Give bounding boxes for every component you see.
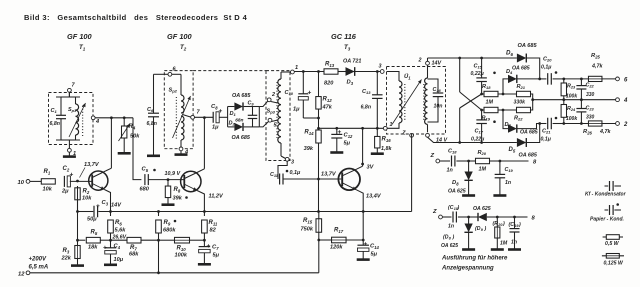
label 14V rail bbox=[111, 203, 122, 209]
wire Z terminal down bbox=[411, 137, 413, 211]
svg-text:GF 100: GF 100 bbox=[167, 32, 193, 41]
capacitor C4 bbox=[103, 240, 124, 265]
svg-text:82: 82 bbox=[210, 228, 217, 234]
transistor T1 bbox=[89, 168, 112, 190]
svg-text:C7: C7 bbox=[212, 245, 219, 251]
svg-text:0,1μ: 0,1μ bbox=[541, 65, 552, 71]
resistor R2 bbox=[75, 188, 92, 202]
svg-text:330k: 330k bbox=[514, 100, 527, 106]
svg-text:6,8n: 6,8n bbox=[50, 121, 60, 127]
label D3 bbox=[343, 59, 361, 86]
svg-text:D4: D4 bbox=[506, 69, 513, 75]
svg-text:13,7V: 13,7V bbox=[321, 172, 337, 178]
capacitor C16 bbox=[428, 79, 444, 122]
stage label GF100 T1 bbox=[67, 32, 93, 51]
svg-text:Papier - Kond.: Papier - Kond. bbox=[590, 217, 624, 223]
svg-text:68n: 68n bbox=[235, 118, 243, 124]
svg-text:R7: R7 bbox=[130, 245, 137, 251]
svg-text:C20: C20 bbox=[543, 57, 552, 63]
label 10,9V bbox=[165, 171, 181, 177]
svg-text:GC 116: GC 116 bbox=[331, 32, 357, 41]
wire bottom rail 14V bbox=[428, 137, 517, 144]
svg-text:C13: C13 bbox=[362, 89, 371, 95]
terminal 1 Sp3 bbox=[291, 65, 299, 74]
svg-text:10,9 V: 10,9 V bbox=[165, 171, 181, 177]
tank1 internal rails bbox=[56, 97, 80, 140]
dashed enclosure Sp3 bbox=[266, 71, 290, 161]
wire T1 emitter down bbox=[105, 190, 111, 212]
svg-text:GF 100: GF 100 bbox=[67, 32, 93, 41]
wire T3 collector up + label 3V bbox=[361, 127, 374, 171]
output terminal 4 bbox=[616, 98, 628, 104]
wire output 8 bbox=[500, 159, 537, 165]
svg-text:1n: 1n bbox=[505, 180, 511, 186]
svg-text:820: 820 bbox=[324, 81, 334, 87]
wire R21-R22 join bbox=[531, 94, 535, 110]
svg-text:R1: R1 bbox=[44, 169, 51, 175]
diode D8 alternative bbox=[462, 216, 475, 250]
wire base row to rail bbox=[318, 179, 320, 212]
resistor R16 bbox=[371, 128, 384, 153]
svg-text:OA 685: OA 685 bbox=[232, 135, 251, 141]
terminal 6 Sp2 bbox=[168, 67, 177, 77]
wire top rail from Sp3 terminal1 bbox=[294, 70, 382, 73]
svg-text:1n: 1n bbox=[448, 224, 454, 230]
svg-text:R11: R11 bbox=[209, 220, 218, 226]
capacitor C21 bbox=[540, 117, 562, 143]
svg-text:4,7k: 4,7k bbox=[591, 64, 603, 70]
svg-text:50μ: 50μ bbox=[87, 217, 97, 223]
svg-text:R17: R17 bbox=[334, 228, 344, 234]
label R5 bbox=[88, 230, 98, 251]
svg-text:D3: D3 bbox=[347, 80, 354, 86]
svg-text:Anzeigespannung: Anzeigespannung bbox=[441, 266, 494, 272]
svg-text:Sp3: Sp3 bbox=[267, 109, 276, 115]
svg-text:R22: R22 bbox=[514, 116, 523, 122]
svg-text:R16: R16 bbox=[382, 137, 392, 143]
wire T3 emitter down + label 13,4V bbox=[356, 190, 381, 240]
resistor R19 row bbox=[482, 107, 517, 112]
resistor R12 bbox=[316, 72, 333, 131]
transistor T2 bbox=[181, 169, 205, 192]
capacitor C2 bbox=[61, 166, 74, 195]
svg-text:T1: T1 bbox=[79, 44, 86, 51]
svg-text:D5: D5 bbox=[509, 147, 516, 153]
output terminal 6 bbox=[616, 77, 628, 83]
dashed enclosure filter Sp1 bbox=[49, 93, 94, 145]
svg-text:0,22μ: 0,22μ bbox=[471, 137, 485, 143]
svg-text:R19: R19 bbox=[482, 116, 491, 122]
svg-text:10μ: 10μ bbox=[114, 257, 124, 263]
resistor R11 bbox=[202, 212, 208, 241]
svg-text:26,6V: 26,6V bbox=[112, 235, 127, 241]
label D1 bbox=[230, 93, 252, 117]
core Sp3 bbox=[276, 82, 278, 140]
core U1 bbox=[405, 84, 424, 120]
capacitor C18 alternative bbox=[442, 205, 468, 230]
capacitor C6 bbox=[147, 74, 161, 156]
svg-text:+: + bbox=[364, 241, 368, 248]
wire C6 to terminal 6 bbox=[154, 73, 169, 75]
svg-text:R4: R4 bbox=[129, 124, 136, 130]
legend 0,5W resistor symbol bbox=[603, 235, 623, 240]
terminal U1 bottom right 14V bbox=[426, 133, 448, 143]
wire T2 collector up bbox=[203, 118, 205, 169]
svg-text:Kf - Kondensator: Kf - Kondensator bbox=[585, 192, 627, 198]
terminal 5 Sp3 bbox=[268, 118, 277, 128]
svg-text:R24: R24 bbox=[567, 106, 576, 112]
label R20 alternative bbox=[493, 221, 508, 247]
label D7 bbox=[505, 122, 538, 136]
svg-text:3V: 3V bbox=[367, 165, 375, 171]
svg-text:C6: C6 bbox=[147, 107, 154, 113]
svg-text:10: 10 bbox=[18, 180, 25, 186]
T3 base row wire bbox=[283, 178, 341, 181]
svg-text:8: 8 bbox=[533, 159, 537, 165]
diode D2 row bbox=[228, 123, 260, 131]
terminal 1 and ground tank1 bbox=[63, 145, 76, 158]
svg-text:3: 3 bbox=[291, 160, 294, 166]
svg-text:C8: C8 bbox=[211, 104, 218, 110]
diode D1 row bbox=[228, 102, 260, 110]
bridge output rail bbox=[258, 107, 260, 127]
coil U1 secondary bbox=[425, 61, 428, 132]
wire row A bbox=[562, 78, 616, 81]
terminal Z U1 bbox=[401, 131, 413, 138]
label 13,7V collector voltage T1 bbox=[80, 162, 100, 178]
diode D5 and corner bbox=[517, 124, 540, 147]
svg-text:1: 1 bbox=[295, 65, 298, 71]
svg-text:1: 1 bbox=[390, 122, 393, 128]
terminal 4 Sp2 and ground bbox=[175, 145, 190, 156]
resistor R14 bbox=[304, 130, 322, 180]
svg-text:C23: C23 bbox=[586, 106, 595, 112]
svg-text:C3: C3 bbox=[102, 200, 109, 206]
svg-text:D1: D1 bbox=[230, 111, 237, 117]
svg-text:+: + bbox=[96, 203, 100, 210]
svg-text:4: 4 bbox=[95, 119, 100, 125]
wires bridge to Sp3 bbox=[259, 101, 268, 127]
resistor R7 row bbox=[111, 237, 160, 243]
svg-text:13,7V: 13,7V bbox=[84, 162, 100, 168]
capacitor C1 bbox=[50, 97, 67, 140]
potentiometer R4 bbox=[118, 118, 141, 154]
label R10 bbox=[175, 246, 188, 259]
svg-text:1M: 1M bbox=[479, 167, 487, 173]
svg-text:): ) bbox=[452, 235, 455, 241]
svg-text:+200V: +200V bbox=[29, 257, 48, 263]
wire C5 to T2 base bbox=[148, 178, 184, 181]
svg-text:OA 721: OA 721 bbox=[343, 59, 361, 65]
label R20 bbox=[478, 150, 487, 173]
svg-text:R5: R5 bbox=[91, 230, 98, 236]
resistor R13 bbox=[324, 62, 338, 87]
diode D4 bbox=[503, 75, 540, 94]
svg-text:1,8k: 1,8k bbox=[381, 146, 392, 152]
wire bbox=[68, 93, 70, 98]
svg-text:120k: 120k bbox=[330, 245, 343, 251]
svg-text:68k: 68k bbox=[129, 252, 139, 258]
svg-text:Z: Z bbox=[432, 209, 437, 215]
wire C2 to T1 base / node bbox=[70, 180, 92, 183]
svg-text:330: 330 bbox=[586, 115, 595, 121]
label R16 bbox=[381, 137, 392, 153]
capacitor C3 bbox=[76, 200, 109, 223]
svg-text:2: 2 bbox=[623, 122, 628, 128]
resistor R18 row bbox=[482, 91, 517, 96]
svg-text:R23: R23 bbox=[567, 84, 576, 90]
svg-text:R12: R12 bbox=[323, 97, 333, 103]
svg-text:5μ: 5μ bbox=[371, 252, 378, 258]
resistor R26 bbox=[583, 121, 611, 135]
capacitor C10 bbox=[284, 72, 311, 119]
stage label GF100 T2 bbox=[167, 32, 193, 51]
resistor R20 bbox=[469, 158, 502, 163]
svg-text:OA 625: OA 625 bbox=[441, 243, 458, 249]
stage label GC116 T3 bbox=[331, 32, 357, 51]
svg-text:6: 6 bbox=[173, 67, 177, 73]
label R6 bbox=[115, 220, 127, 234]
resistor R17 row bbox=[319, 237, 365, 243]
svg-text:OA 685: OA 685 bbox=[232, 93, 251, 99]
legend Papier capacitor symbol bbox=[605, 203, 622, 215]
capacitor C5 bbox=[140, 167, 156, 193]
label 13,7V T3 bbox=[321, 172, 337, 178]
resistor R5 row bbox=[78, 237, 111, 243]
resistor R6 bbox=[108, 212, 114, 242]
coil U1 primary bbox=[387, 72, 403, 129]
svg-text:C16: C16 bbox=[433, 87, 442, 93]
svg-text:1M: 1M bbox=[500, 241, 508, 247]
svg-text:4,7k: 4,7k bbox=[599, 129, 611, 135]
resistor R8 bbox=[162, 180, 188, 205]
legend text Kf-Kondensator bbox=[585, 192, 627, 198]
capacitor C9 bbox=[235, 101, 257, 127]
crossover wires bbox=[460, 92, 483, 111]
svg-text:OA 685: OA 685 bbox=[512, 66, 530, 72]
wire terminal3 down to C11 bbox=[278, 161, 287, 179]
svg-text:T2: T2 bbox=[180, 44, 187, 51]
wire terminal7 to C8 bbox=[195, 116, 214, 119]
svg-text:5μ: 5μ bbox=[344, 141, 351, 147]
bus corner up to R15 bbox=[318, 239, 320, 273]
label D4 bbox=[506, 66, 530, 76]
svg-text:+: + bbox=[70, 172, 74, 179]
svg-text:6,5 mA: 6,5 mA bbox=[29, 265, 49, 271]
svg-text:C19: C19 bbox=[505, 167, 514, 173]
svg-text:330: 330 bbox=[586, 92, 595, 98]
wire R2 to emitter rail bbox=[77, 186, 79, 212]
wire output 8 alternative bbox=[515, 215, 536, 221]
label R7 bbox=[129, 245, 139, 258]
svg-text:2μ: 2μ bbox=[61, 189, 69, 195]
svg-text:T3: T3 bbox=[344, 44, 351, 51]
svg-text:R26: R26 bbox=[583, 129, 592, 135]
svg-text:10k: 10k bbox=[43, 187, 53, 193]
resistor R24 bbox=[561, 100, 577, 124]
legend text 0,5W bbox=[605, 241, 620, 247]
capacitor C14 bbox=[357, 240, 380, 260]
diode D6 and corner bbox=[517, 54, 541, 81]
svg-text:R21: R21 bbox=[517, 84, 526, 90]
coil Sp1 bbox=[68, 97, 79, 140]
resistor R3 bbox=[61, 240, 85, 265]
svg-text:R6: R6 bbox=[115, 220, 122, 226]
svg-text:R2: R2 bbox=[83, 189, 90, 195]
svg-text:C9: C9 bbox=[248, 101, 255, 107]
svg-text:6,8n: 6,8n bbox=[361, 105, 371, 111]
wire node 4 to the right bbox=[95, 116, 133, 119]
svg-text:D8: D8 bbox=[452, 180, 459, 186]
resistor R15 bbox=[301, 212, 322, 242]
svg-text:): ) bbox=[457, 205, 460, 211]
label U1 bbox=[404, 73, 411, 80]
svg-text:7: 7 bbox=[72, 83, 76, 89]
svg-text:0,125 W: 0,125 W bbox=[604, 261, 624, 267]
svg-text:10k: 10k bbox=[82, 196, 92, 202]
label D8 alternative bbox=[441, 235, 458, 250]
capacitor C12 bbox=[330, 128, 353, 152]
variable arrow U1 bbox=[392, 80, 422, 125]
svg-text:0,1μ: 0,1μ bbox=[290, 170, 301, 176]
svg-text:100k: 100k bbox=[175, 253, 188, 259]
svg-text:680: 680 bbox=[140, 187, 150, 193]
label D2 bbox=[229, 121, 251, 142]
svg-text:R18: R18 bbox=[482, 84, 491, 90]
svg-text:0,5 W: 0,5 W bbox=[605, 241, 620, 247]
svg-text:1n: 1n bbox=[447, 168, 454, 174]
svg-text:8: 8 bbox=[449, 237, 452, 241]
variable arrow Sp2 bbox=[173, 96, 191, 138]
svg-text:OA 685: OA 685 bbox=[518, 43, 538, 49]
resistor R25 bbox=[588, 53, 603, 82]
svg-text:100k: 100k bbox=[566, 116, 577, 122]
label D5 bbox=[509, 147, 538, 159]
tank1 connecting wires bbox=[61, 92, 76, 144]
label R19 bbox=[482, 116, 491, 122]
svg-text:50k: 50k bbox=[130, 134, 140, 140]
diode D8 bbox=[462, 160, 475, 196]
svg-text:Z: Z bbox=[429, 153, 434, 159]
terminal 7 tank1 bbox=[68, 83, 76, 93]
svg-text:100k: 100k bbox=[566, 94, 577, 100]
svg-text:OA 685: OA 685 bbox=[519, 153, 538, 159]
svg-text:+: + bbox=[308, 90, 312, 97]
svg-text:6: 6 bbox=[624, 77, 628, 83]
diode D9 alternative bbox=[469, 213, 499, 221]
svg-text:R14: R14 bbox=[304, 130, 314, 136]
legend 0,125W resistor symbol bbox=[602, 254, 624, 259]
svg-text:C14: C14 bbox=[370, 244, 379, 250]
svg-text:0,22μ: 0,22μ bbox=[471, 71, 485, 77]
wire T1 collector up to node 4 line bbox=[110, 118, 112, 168]
capacitor C7 bbox=[198, 240, 220, 264]
svg-text:1n: 1n bbox=[511, 240, 517, 246]
svg-text:680k: 680k bbox=[163, 228, 176, 234]
svg-text:C11: C11 bbox=[270, 172, 278, 178]
svg-text:+: + bbox=[219, 108, 223, 115]
detector center column bbox=[459, 58, 461, 143]
variable core arrow Sp1 bbox=[69, 103, 86, 137]
svg-text:C1: C1 bbox=[51, 108, 58, 114]
stub Z bbox=[411, 134, 413, 137]
terminal 1 U1 (left) bbox=[383, 122, 392, 130]
terminal Z indicator bbox=[429, 153, 439, 163]
transistor T3 bbox=[338, 166, 362, 190]
capacitor C22 bbox=[576, 79, 594, 100]
svg-text:D7: D7 bbox=[505, 122, 512, 128]
svg-text:): ) bbox=[484, 226, 487, 232]
note text Ausfuehrung bbox=[441, 256, 508, 272]
dashed enclosure Sp2 bbox=[164, 71, 193, 149]
label D9 bbox=[473, 206, 491, 232]
label +200V 6,5mA bbox=[29, 257, 49, 271]
svg-text:6,8n: 6,8n bbox=[147, 121, 157, 127]
svg-text:): ) bbox=[518, 222, 521, 228]
wire R2/R3 column bbox=[76, 198, 79, 242]
svg-text:0,1μ: 0,1μ bbox=[541, 137, 552, 143]
capacitor C19 alternative bbox=[497, 216, 521, 250]
capacitor C23 bbox=[576, 100, 594, 124]
svg-text:750k: 750k bbox=[301, 227, 314, 233]
svg-text:Z: Z bbox=[401, 131, 406, 137]
capacitor C19 bbox=[493, 161, 513, 196]
label R18 bbox=[482, 84, 493, 106]
svg-text:1M: 1M bbox=[486, 100, 494, 106]
legend text Papier-Kond bbox=[590, 217, 624, 223]
svg-text:5,6k: 5,6k bbox=[115, 228, 127, 234]
capacitor C13 bbox=[361, 72, 383, 129]
svg-text:1μ: 1μ bbox=[293, 107, 300, 113]
terminal Z alternative bbox=[432, 209, 442, 219]
svg-text:2: 2 bbox=[271, 92, 275, 98]
terminal 12 and supply bus bbox=[18, 271, 319, 278]
svg-text:18k: 18k bbox=[88, 245, 98, 251]
terminal 2 Sp3 bbox=[267, 92, 275, 102]
svg-text:R8: R8 bbox=[174, 187, 181, 193]
svg-text:2: 2 bbox=[418, 58, 422, 64]
svg-text:D6: D6 bbox=[506, 50, 513, 57]
terminal 7 Sp2 (tap) bbox=[183, 110, 201, 120]
svg-text:R15: R15 bbox=[303, 218, 313, 224]
svg-text:22k: 22k bbox=[61, 256, 72, 262]
node 3 terminal bbox=[379, 64, 385, 74]
svg-text:R25: R25 bbox=[591, 53, 600, 59]
legend text 0,125W bbox=[604, 261, 624, 267]
svg-text:OA 685: OA 685 bbox=[520, 130, 538, 136]
svg-text:+: + bbox=[103, 245, 107, 252]
capacitor C18 bbox=[440, 149, 469, 174]
dashed enclosure U1 transformer bbox=[387, 67, 446, 135]
resistor R1 bbox=[41, 169, 55, 193]
svg-text:12: 12 bbox=[18, 272, 25, 278]
svg-text:1μ: 1μ bbox=[212, 125, 219, 131]
svg-text:C4: C4 bbox=[114, 244, 121, 250]
svg-text:47k: 47k bbox=[322, 105, 333, 111]
wire C10 to R12/R14 junction bbox=[303, 117, 320, 120]
wire T2 emitter down + label bbox=[197, 191, 224, 212]
core Sp2 bbox=[175, 97, 177, 140]
svg-text:39k: 39k bbox=[173, 196, 183, 202]
svg-text:R10: R10 bbox=[177, 246, 187, 252]
svg-text:R3: R3 bbox=[63, 248, 70, 254]
svg-text:): ) bbox=[502, 221, 505, 227]
svg-text:8: 8 bbox=[532, 215, 536, 221]
wire row C bbox=[562, 122, 616, 125]
svg-text:39k: 39k bbox=[304, 146, 314, 152]
svg-text:5μ: 5μ bbox=[213, 253, 220, 259]
coil Sp3 bbox=[278, 72, 291, 156]
